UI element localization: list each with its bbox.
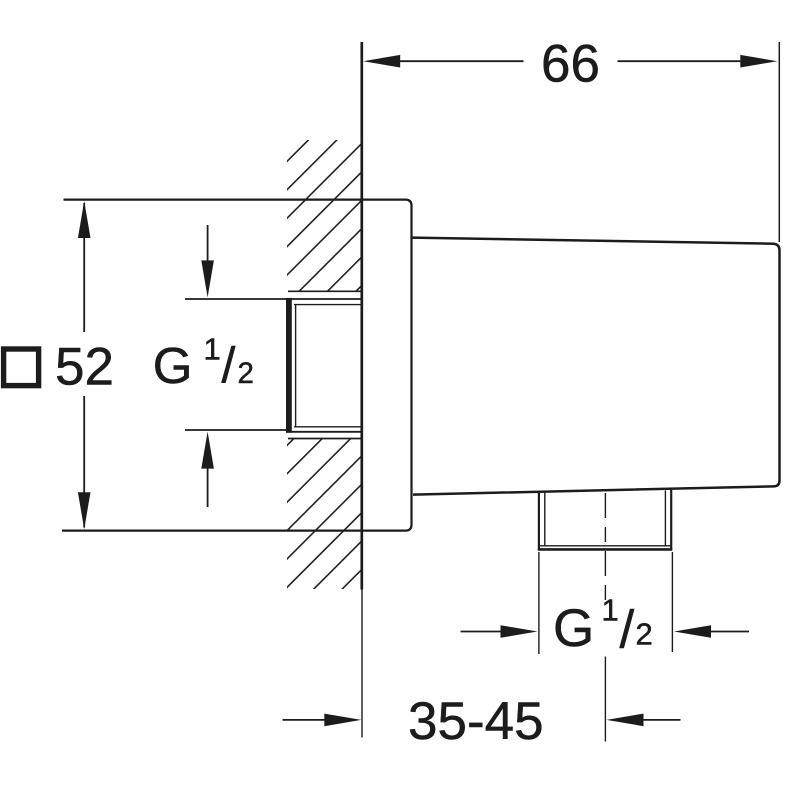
svg-text:1: 1 bbox=[204, 331, 221, 366]
centerline solid extension below label bbox=[604, 657, 606, 742]
inlet thread inner top line bbox=[294, 304, 361, 306]
hatch boundary line below inlet thread bbox=[288, 438, 361, 440]
inlet thread end face (thick bar) bbox=[286, 298, 292, 433]
svg-text:35-45: 35-45 bbox=[408, 692, 544, 751]
svg-text:52: 52 bbox=[55, 338, 114, 397]
svg-text:2: 2 bbox=[636, 616, 653, 651]
inlet dim up arrowhead bbox=[201, 432, 214, 469]
66 dimension right extension line bbox=[778, 42, 780, 242]
inlet dim down arrow shaft bbox=[207, 225, 209, 263]
66 dimension line left segment bbox=[399, 60, 524, 62]
inlet dim down arrowhead bbox=[201, 260, 214, 297]
52 dimension line lower segment bbox=[83, 396, 85, 528]
35-45 dim: right arrowhead bbox=[607, 714, 644, 727]
hatch boundary line above inlet thread bbox=[288, 290, 361, 292]
outlet G 1/2 dim: left arrow shaft bbox=[461, 631, 506, 633]
outlet nipple bottom thick line bbox=[538, 548, 673, 551]
66 dimension line right segment bbox=[618, 60, 742, 62]
wall line bbox=[360, 42, 363, 590]
outlet G 1/2 dim: left arrowhead bbox=[501, 625, 538, 638]
outlet dashed centerline bbox=[604, 493, 606, 600]
52 dimension top arrowhead bbox=[78, 201, 91, 238]
52 dimension line upper segment bbox=[83, 203, 85, 332]
inlet dim up arrow shaft bbox=[207, 466, 209, 507]
outlet nipple left outer edge bbox=[538, 491, 540, 550]
svg-text:66: 66 bbox=[541, 35, 600, 94]
svg-text:/: / bbox=[620, 601, 635, 660]
wall hatching upper region bbox=[0, 100, 632, 620]
outlet G 1/2 dim: right arrow shaft bbox=[710, 631, 749, 633]
svg-text:1: 1 bbox=[602, 592, 619, 627]
body of wall union bbox=[412, 238, 780, 495]
outlet nipple bottom thin line bbox=[539, 545, 671, 547]
outlet nipple left inner line bbox=[544, 492, 546, 547]
outlet G 1/2 dim: left extension line bbox=[538, 552, 540, 654]
inlet thread inner bottom line bbox=[294, 426, 361, 428]
inlet thread chamfer vertical bbox=[295, 305, 297, 427]
inlet thread G1/2 outer top line bbox=[286, 298, 362, 300]
66 dimension right arrowhead bbox=[740, 55, 777, 68]
outlet nipple right outer edge bbox=[670, 489, 672, 549]
66 dimension left arrowhead bbox=[363, 55, 400, 68]
wall plate (escutcheon) with 52-dim extension lines bbox=[62, 200, 412, 531]
wall line thin extension down to 35-45 dimension bbox=[361, 590, 363, 738]
wall hatching lower region bbox=[27, 100, 800, 620]
outlet nipple right inner line bbox=[664, 491, 666, 547]
svg-text:/: / bbox=[222, 337, 236, 393]
35-45 dim: left arrowhead bbox=[324, 714, 361, 727]
inlet thread outer bottom line bbox=[286, 431, 362, 433]
inlet thread height dim: bottom extension line bbox=[185, 429, 288, 431]
square symbol bbox=[4, 349, 39, 386]
inlet thread height dim: top extension line bbox=[185, 298, 288, 300]
35-45 dim: right arrow shaft bbox=[643, 719, 681, 721]
52 dimension bottom arrowhead bbox=[78, 492, 91, 529]
outlet G 1/2 dim: right arrowhead bbox=[674, 625, 711, 638]
svg-text:G: G bbox=[553, 599, 594, 658]
outlet G 1/2 dim: right extension line bbox=[671, 552, 673, 652]
svg-text:2: 2 bbox=[238, 357, 254, 390]
svg-text:G: G bbox=[153, 337, 193, 394]
35-45 dim: left arrow shaft bbox=[283, 719, 330, 721]
